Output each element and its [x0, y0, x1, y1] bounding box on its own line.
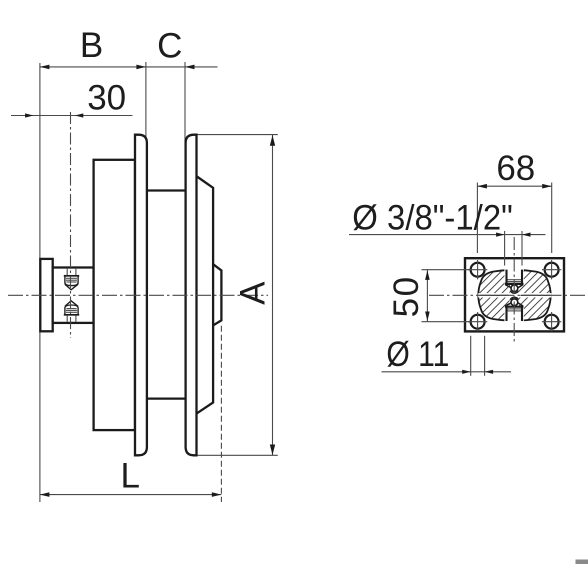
bolt hole top-left: [471, 263, 485, 277]
svg-text:A: A: [234, 281, 273, 305]
svg-text:Ø 11: Ø 11: [386, 335, 449, 374]
vertical centerline of flange plate: [513, 237, 515, 342]
lower screw pocket cutout: [504, 307, 523, 325]
bolt hole bottom-left: [471, 315, 485, 329]
gray mark bottom-right corner: [576, 560, 588, 564]
lower screw socket thread lines: [508, 308, 522, 310]
pulley hub body: [94, 160, 135, 430]
thread dimension extension lines: [504, 231, 506, 266]
upper clamp screw cup: [65, 276, 78, 286]
svg-text:Ø 3/8"-1/2": Ø 3/8"-1/2": [352, 198, 513, 237]
svg-text:L: L: [120, 456, 139, 495]
split gap band: [478, 293, 551, 297]
svg-text:C: C: [157, 27, 182, 66]
horizontal centerline of flange plate: [429, 294, 586, 296]
dimension line 30: [11, 115, 133, 117]
lower screw socket walls: [505, 307, 507, 321]
upper screw socket walls: [505, 270, 507, 284]
lower clamp screw cup: [65, 305, 78, 315]
horizontal centerline of side view: [8, 294, 268, 296]
right flange rim: [186, 135, 197, 456]
50 extension lines: [422, 269, 471, 271]
A extension line top: [197, 134, 278, 136]
upper clamp screw thread lines: [66, 277, 77, 279]
lower clamp screw flange line: [64, 314, 79, 316]
screw axis extension line x=70.5: [70, 112, 72, 338]
end washer plate: [40, 259, 52, 331]
groove bottom line bottom: [147, 397, 186, 399]
upper screw pocket cutout: [504, 266, 523, 284]
lower ball: [511, 299, 518, 306]
dimension line thread size: [349, 234, 546, 236]
dimension line L: [40, 494, 221, 496]
upper ball: [511, 285, 518, 292]
bolt hole bottom-right: [545, 315, 559, 329]
groove bottom line top: [147, 189, 186, 191]
back disc with chamfered edges: [197, 177, 213, 414]
upper screw cone lines: [505, 285, 511, 288]
dimension line 68: [477, 185, 551, 187]
mounting plate edge-on with chamfered corners: [213, 264, 221, 325]
upper screw socket thread lines: [508, 279, 522, 281]
hole diameter extension lines: [470, 336, 472, 376]
center corridor cutout: [510, 284, 519, 307]
dimension line 50: [426, 270, 428, 322]
A extension line bottom: [197, 454, 278, 456]
68 extension lines: [476, 183, 478, 254]
svg-text:B: B: [80, 26, 103, 65]
upper clamp screw flange line: [64, 275, 79, 277]
lower screw cone lines: [505, 303, 511, 306]
svg-text:50: 50: [387, 275, 426, 317]
lower clamp screw thread lines: [66, 311, 77, 313]
svg-text:68: 68: [496, 149, 535, 188]
L extension line right dashed: [220, 326, 222, 502]
upper clamp screw cone point: [65, 284, 78, 290]
left flange rim: [135, 135, 147, 456]
dimension line A: [272, 135, 274, 455]
lower clamp screw section wall ticks: [66, 315, 68, 321]
lower screw flange line: [505, 306, 524, 308]
dimension line hole diameter: [382, 371, 512, 373]
dimension line B and C: [40, 66, 218, 68]
clevis fork hub: [53, 268, 94, 323]
lower clamp screw cone point: [65, 301, 78, 307]
C extension line right: [184, 62, 186, 143]
upper ball seat arc: [510, 291, 518, 293]
mounting flange plate: [465, 258, 564, 331]
upper clamp screw section wall ticks: [66, 269, 68, 275]
split line: [480, 294, 509, 296]
lower ball seat arc: [510, 297, 518, 299]
extension line at left face x=40: [39, 63, 41, 502]
hatched pulley disc (section): [478, 270, 550, 321]
upper screw flange line: [505, 283, 524, 285]
svg-text:30: 30: [87, 79, 126, 118]
bolt hole top-right: [545, 263, 559, 277]
C extension line left: [145, 62, 147, 143]
